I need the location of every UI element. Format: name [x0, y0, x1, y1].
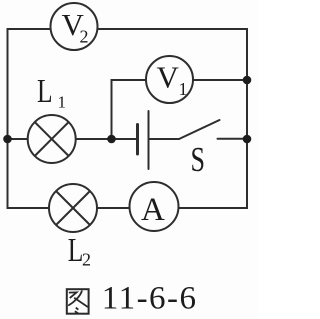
svg-text:1: 1 [179, 79, 188, 99]
svg-text:V: V [157, 60, 180, 95]
svg-text:2: 2 [82, 250, 91, 270]
svg-text:A: A [141, 192, 165, 228]
svg-text:S: S [191, 140, 206, 179]
svg-text:2: 2 [80, 27, 89, 47]
svg-text:11-6-6: 11-6-6 [102, 281, 198, 317]
svg-text:L: L [37, 73, 53, 110]
svg-text:1: 1 [58, 93, 67, 112]
